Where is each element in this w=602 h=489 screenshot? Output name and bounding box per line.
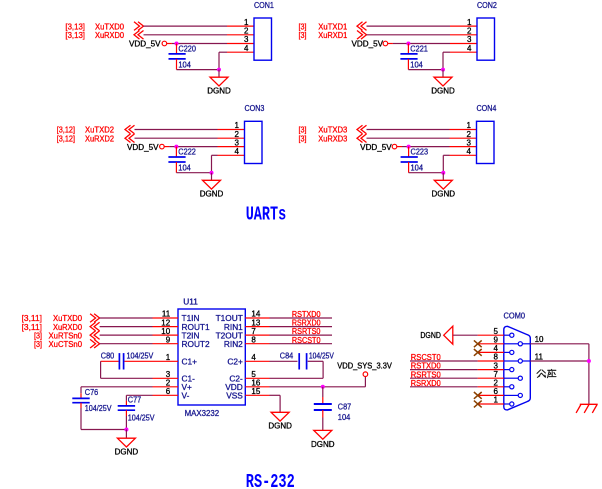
svg-text:3: 3	[235, 138, 240, 147]
svg-text:4: 4	[235, 147, 240, 156]
svg-text:XuRXD1: XuRXD1	[318, 30, 347, 40]
svg-text:1: 1	[166, 353, 171, 362]
svg-text:CON3: CON3	[244, 103, 264, 113]
wire XuRXD1 to CON2 pin 2	[367, 34, 451, 36]
wire U11 V- to C77	[126, 395, 152, 401]
pin 4 of CON4	[450, 147, 477, 156]
net label [3,13] XuTXD0 (CON1 pin 1)	[65, 21, 124, 31]
no-connect X on COM0 pin 6	[474, 392, 482, 399]
wire XuRXD0 to U11 pin 12	[100, 326, 153, 328]
pin 2 of U11	[153, 379, 179, 388]
off-page connector XuRXD3	[357, 134, 367, 143]
off-page connector XuTXD0 (U11)	[90, 314, 100, 323]
ground DGND (CON3)	[200, 180, 224, 198]
svg-text:DGND: DGND	[432, 190, 456, 199]
net label RSCST0 (U11)	[292, 335, 321, 345]
pin 1 of CON3	[218, 121, 245, 130]
wire junction to DGND (CON2)	[442, 70, 444, 78]
off-page connector XuRXD0	[134, 31, 144, 40]
junction at C220 top	[175, 42, 179, 46]
no-connect X on COM0 pin 9	[474, 340, 482, 347]
wire RSRXD0 to COM0 pin 2	[410, 386, 478, 388]
off-page connector XuCTSn0 (U11)	[90, 339, 100, 348]
pin 1 of CON1	[227, 18, 254, 27]
pin 7 of U11	[245, 327, 269, 336]
wire XuTXD1 to CON2 pin 1	[367, 25, 451, 27]
ground DGND (CON1)	[207, 77, 231, 95]
svg-text:3: 3	[467, 35, 472, 44]
off-page connector XuTXD2	[125, 125, 135, 134]
off-page connector XuTXD0	[134, 22, 144, 31]
wire C77 bottom to junction	[125, 416, 127, 430]
svg-text:4: 4	[467, 147, 472, 156]
section title UARTs	[246, 204, 286, 226]
capacitor C223	[401, 147, 429, 173]
wire junction to DGND (CON1)	[218, 70, 220, 78]
svg-text:DGND: DGND	[268, 422, 292, 431]
svg-text:1: 1	[467, 18, 472, 27]
svg-text:ROUT2: ROUT2	[182, 339, 211, 349]
pin 3 of CON4	[450, 138, 477, 147]
wire VDD_5V to junction (CON3)	[164, 146, 176, 148]
pin 10 of U11	[153, 327, 179, 336]
pin 6 of COM0	[478, 387, 504, 396]
COM0 shell pin 10	[530, 335, 589, 344]
svg-text:DGND: DGND	[115, 448, 139, 457]
pin 16 of U11	[245, 379, 269, 388]
pin 6 of U11	[153, 387, 179, 396]
wire C220 bottom to ground junction	[177, 69, 220, 71]
pin 1 of CON4	[450, 121, 477, 130]
wire RSCST0 to COM0 pin 8	[410, 360, 478, 362]
net label RSRTS0 (COM0)	[411, 369, 441, 379]
net label [3,12] XuTXD2 (CON3 pin 1)	[57, 125, 115, 135]
wire U11 output RSCST0	[270, 343, 333, 345]
svg-text:[3,13]: [3,13]	[65, 30, 85, 40]
svg-text:C221: C221	[410, 44, 428, 54]
capacitor C84	[280, 351, 334, 370]
svg-text:104: 104	[411, 163, 424, 173]
svg-text:DGND: DGND	[311, 440, 335, 449]
svg-text:DGND: DGND	[420, 331, 441, 340]
pin 15 of U11	[245, 387, 269, 396]
svg-text:VDD_5V: VDD_5V	[127, 143, 159, 152]
wire U11 VDD to VDD_SYS_3.3V	[270, 377, 366, 387]
svg-text:8: 8	[251, 335, 256, 344]
svg-text:CON2: CON2	[477, 0, 497, 10]
svg-text:104: 104	[178, 163, 191, 173]
junction at DGND (CON2)	[441, 68, 445, 72]
pin 5 of COM0	[478, 327, 504, 336]
junction at C221 top	[406, 42, 410, 46]
wire U11 VSS to DGND	[270, 395, 281, 412]
svg-text:C87: C87	[338, 401, 352, 411]
ground DGND (U11 VSS)	[268, 412, 292, 430]
pin 11 of U11	[153, 310, 179, 319]
svg-text:1: 1	[467, 121, 472, 130]
capacitor C80	[101, 351, 154, 370]
svg-text:104: 104	[178, 59, 191, 69]
wire C87 to DGND	[322, 418, 324, 431]
svg-text:XuRXD0: XuRXD0	[95, 30, 124, 40]
pin 13 of U11	[245, 318, 269, 327]
svg-text:C223: C223	[411, 147, 429, 157]
no-connect X on COM0 pin 4	[474, 349, 482, 356]
junction shell pins	[587, 344, 591, 405]
svg-text:104: 104	[338, 412, 351, 422]
pin 4 of CON1	[227, 44, 254, 53]
svg-text:1: 1	[244, 18, 249, 27]
junction at C87	[321, 385, 325, 389]
net label [3,11] XuRXD0 (U11)	[22, 322, 83, 332]
pin 3 of CON1	[227, 35, 254, 44]
wire C76 bottom to junction	[81, 408, 126, 430]
wire XuTXD3 to CON4 pin 1	[367, 129, 450, 131]
svg-text:[3,12]: [3,12]	[57, 133, 75, 143]
wire RSTXD0 to COM0 pin 3	[410, 369, 478, 371]
svg-text:VDD_5V: VDD_5V	[360, 143, 392, 152]
pin 1 of COM0	[478, 396, 504, 405]
wire VDD_5V to junction (CON4)	[397, 146, 409, 148]
svg-text:4: 4	[244, 44, 249, 53]
net label RSRXD0 (U11)	[292, 318, 321, 328]
net label [3] XuRXD1 (CON2 pin 2)	[299, 30, 348, 40]
wire CON2 pin 4 elbow	[443, 52, 450, 69]
wire junction to CON1 pin 3	[177, 43, 228, 45]
wire C80 to U11 pin 3 (C1-)	[101, 361, 153, 378]
junction at C223 top	[407, 145, 411, 149]
svg-text:2: 2	[467, 27, 472, 36]
svg-text:104/25V: 104/25V	[309, 351, 334, 361]
pin 9 of U11	[153, 335, 179, 344]
svg-text:4: 4	[251, 353, 256, 362]
svg-text:XuCTSn0: XuCTSn0	[49, 339, 83, 349]
wire VDD_5V to junction (CON2)	[388, 43, 409, 45]
power VDD_5V (CON4)	[360, 143, 397, 152]
off-page connector XuTXD1	[357, 22, 367, 31]
svg-text:C77: C77	[128, 394, 142, 404]
pin 4 of CON2	[450, 44, 477, 53]
connector CON1	[254, 0, 274, 60]
wire U11 V+ to C76	[81, 387, 153, 394]
net label RSRXD0 (COM0)	[411, 378, 441, 388]
connector CON2	[477, 0, 497, 60]
svg-text:RSCST0: RSCST0	[292, 335, 321, 345]
pin 2 of CON4	[450, 130, 477, 139]
svg-text:XuRXD2: XuRXD2	[85, 133, 114, 143]
off-page connector XuRXD0 (U11)	[90, 322, 100, 331]
wire XuRXD0 to CON1 pin 2	[144, 34, 228, 36]
svg-text:VDD_5V: VDD_5V	[129, 40, 161, 49]
svg-text:[3]: [3]	[299, 30, 307, 40]
power VDD_SYS_3.3V	[337, 362, 392, 377]
connector CON4	[476, 103, 496, 163]
wire U11 C2+ to C84	[270, 360, 298, 362]
pin 1 of U11	[153, 353, 179, 362]
connector CON3	[244, 103, 264, 163]
power VDD_5V (CON2)	[352, 40, 388, 49]
ground DGND (COM0 pin 5)	[420, 326, 452, 344]
svg-text:4: 4	[467, 44, 472, 53]
pin 12 of U11	[153, 318, 179, 327]
off-page connector XuRXD1	[357, 31, 367, 40]
net label [3] XuTXD3 (CON4 pin 1)	[299, 125, 348, 135]
net label [3,12] XuRXD2 (CON3 pin 2)	[57, 133, 115, 143]
svg-text:XuRXD3: XuRXD3	[318, 133, 347, 143]
ground DGND (C87)	[311, 430, 335, 448]
wire C222 bottom to ground junction	[176, 172, 211, 174]
wire CON4 pin 4 elbow	[443, 155, 449, 172]
wire junction to CON3 pin 3	[176, 146, 217, 148]
svg-text:C76: C76	[85, 387, 99, 397]
capacitor C77	[118, 394, 155, 422]
wire XuCTSn0 to U11 pin 9	[100, 343, 153, 345]
pin 8 of U11	[245, 335, 269, 344]
wire U11 output RSTXD0	[270, 317, 333, 319]
pin 3 of U11	[153, 370, 179, 379]
junction C76/C77 ground	[124, 428, 128, 432]
svg-text:COM0: COM0	[504, 310, 526, 320]
power VDD_5V (CON3)	[127, 143, 164, 152]
capacitor C87	[314, 387, 352, 422]
net label RSCST0 (COM0)	[411, 352, 441, 362]
svg-text:DGND: DGND	[431, 87, 455, 96]
svg-text:VDD_SYS_3.3V: VDD_SYS_3.3V	[337, 362, 392, 371]
pin 2 of CON2	[450, 27, 477, 36]
svg-text:104/25V: 104/25V	[85, 403, 112, 413]
net label RSTXD0 (COM0)	[411, 361, 441, 371]
svg-text:15: 15	[251, 387, 260, 396]
svg-text:MAX3232: MAX3232	[185, 408, 220, 418]
pin 2 of CON3	[218, 130, 245, 139]
wire CON3 pin 4 elbow	[212, 155, 218, 172]
pin 4 of CON3	[218, 147, 245, 156]
junction at DGND (CON4)	[441, 171, 445, 175]
wire XuRXD2 to CON3 pin 2	[135, 137, 218, 139]
junction at DGND (CON3)	[210, 171, 214, 175]
U11 pin names	[182, 313, 244, 400]
svg-text:C84: C84	[280, 351, 294, 361]
pin 7 of COM0	[478, 370, 504, 379]
off-page connector XuRTSn0 (U11)	[90, 331, 100, 340]
net label [3] XuCTSn0 (U11)	[34, 339, 82, 349]
pin 5 of U11	[245, 370, 269, 379]
COM0 pin circles and leads	[504, 333, 531, 406]
connector COM0 DB9 body	[504, 310, 531, 410]
svg-text:VDD_5V: VDD_5V	[352, 40, 384, 49]
off-page connector XuTXD3	[357, 125, 367, 134]
COM0 shell pin 11	[530, 352, 589, 361]
svg-text:6: 6	[166, 387, 171, 396]
wire C221 bottom to ground junction	[408, 69, 443, 71]
wire junction to CON4 pin 3	[409, 146, 450, 148]
pin 1 of CON2	[450, 18, 477, 27]
ground DGND (C76/C77)	[115, 438, 139, 456]
capacitor C222	[168, 147, 196, 173]
section title RS-232	[246, 472, 295, 489]
svg-text:C1+: C1+	[182, 357, 198, 367]
off-page connector XuRXD2	[125, 134, 135, 143]
wire C223 bottom to ground junction	[409, 172, 444, 174]
ground DGND (CON4)	[432, 180, 456, 198]
wire XuTXD2 to CON3 pin 1	[135, 129, 218, 131]
pin 4 of COM0	[478, 344, 504, 353]
svg-text:3: 3	[244, 35, 249, 44]
pin 14 of U11	[245, 310, 269, 319]
svg-text:C2+: C2+	[227, 357, 243, 367]
net label [3] XuRXD3 (CON4 pin 2)	[299, 133, 348, 143]
wire junction to DGND (C77)	[125, 430, 127, 439]
wire XuRTSn0 to U11 pin 10	[100, 334, 153, 336]
net label [3] XuRTSn0 (U11)	[34, 330, 82, 340]
svg-text:VSS: VSS	[226, 391, 243, 401]
svg-text:10: 10	[535, 335, 544, 344]
wire C84 to U11 pin 5 (C2-)	[270, 361, 324, 378]
svg-text:3: 3	[467, 138, 472, 147]
capacitor C220	[169, 44, 197, 70]
pin 8 of COM0	[478, 353, 504, 362]
svg-text:RS-232: RS-232	[246, 472, 295, 489]
wire XuRXD3 to CON4 pin 2	[367, 137, 450, 139]
annotation text (male socket)	[537, 369, 556, 377]
junction at DGND (CON1)	[217, 68, 221, 72]
wire junction to CON2 pin 3	[408, 43, 450, 45]
svg-text:UARTs: UARTs	[246, 204, 286, 226]
wire junction to DGND (CON4)	[442, 173, 444, 181]
svg-text:V-: V-	[182, 391, 190, 401]
capacitor C76	[72, 387, 112, 413]
svg-text:104: 104	[410, 59, 423, 69]
wire DGND to COM0 pin 5	[453, 334, 478, 336]
svg-text:C220: C220	[178, 44, 196, 54]
svg-text:1: 1	[494, 396, 499, 405]
svg-text:104/25V: 104/25V	[127, 351, 154, 361]
svg-text:9: 9	[166, 335, 171, 344]
capacitor C221	[400, 44, 428, 70]
pin 2 of COM0	[478, 379, 504, 388]
svg-text:CON4: CON4	[476, 103, 496, 113]
wire XuTXD0 to CON1 pin 1	[144, 25, 228, 27]
svg-text:C80: C80	[101, 351, 115, 361]
svg-text:DGND: DGND	[207, 87, 231, 96]
wire U11 output RSRTS0	[270, 334, 333, 336]
pin 4 of U11	[245, 353, 269, 362]
svg-text:DGND: DGND	[200, 190, 224, 199]
svg-text:104/25V: 104/25V	[128, 413, 155, 423]
net label [3,11] XuTXD0 (U11)	[22, 313, 83, 323]
pin 9 of COM0	[478, 336, 504, 345]
net label RSRTS0 (U11)	[292, 326, 321, 336]
svg-text:2: 2	[244, 27, 249, 36]
svg-text:CON1: CON1	[254, 0, 274, 10]
svg-text:[3]: [3]	[299, 133, 307, 143]
pin 3 of CON3	[218, 138, 245, 147]
svg-text:11: 11	[535, 352, 544, 361]
op-amp U11 MAX3232 body	[178, 297, 245, 419]
wire XuTXD0 to U11 pin 11	[100, 317, 153, 319]
ground DGND (CON2)	[431, 77, 455, 95]
wire junction to DGND (CON3)	[211, 173, 213, 181]
svg-text:1: 1	[235, 121, 240, 130]
svg-text:[3]: [3]	[34, 339, 42, 349]
wire CON1 pin 4 elbow	[219, 52, 227, 69]
net label [3] XuTXD1 (CON2 pin 1)	[299, 21, 348, 31]
ground earth (COM0 shell)	[576, 404, 598, 413]
svg-text:C222: C222	[178, 147, 196, 157]
wire RSRTS0 to COM0 pin 7	[410, 377, 478, 379]
wire VDD_5V to junction (CON1)	[167, 43, 177, 45]
net label RSTXD0 (U11)	[292, 309, 321, 319]
no-connect X on COM0 pin 1	[474, 401, 482, 408]
pin 2 of CON1	[227, 27, 254, 36]
svg-text:RIN2: RIN2	[224, 339, 243, 349]
pin 3 of COM0	[478, 361, 504, 370]
power VDD_5V (CON1)	[129, 40, 167, 49]
net label [3,13] XuRXD0 (CON1 pin 2)	[65, 30, 124, 40]
wire U11 output RSRXD0	[270, 326, 333, 328]
pin 3 of CON2	[450, 35, 477, 44]
svg-text:U11: U11	[183, 297, 198, 307]
junction at C222 top	[174, 145, 178, 149]
